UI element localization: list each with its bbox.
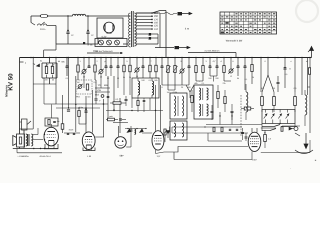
wire drop D6 [149, 58, 151, 66]
capacitor C7 [105, 65, 108, 67]
tube V5 (ECH) [248, 132, 261, 151]
capacitor C20 [244, 65, 247, 67]
capacitor C13 [161, 65, 164, 67]
resistor R15 [251, 65, 253, 72]
capacitor C30 [231, 110, 234, 112]
resistor small c [137, 101, 139, 106]
svg-text:1/4w: 1/4w [79, 106, 84, 109]
wire diag right [268, 75, 274, 92]
pickup arc [295, 150, 313, 154]
V3 electrode b [122, 140, 124, 142]
wire HT [136, 43, 158, 45]
small diode arrow left of cluster A [37, 64, 40, 67]
wire drop C1 [94, 58, 96, 65]
wire h127 [172, 126, 242, 128]
extra density verticals [43, 78, 45, 104]
svg-text:er 4w: er 4w [87, 44, 93, 47]
svg-text:40k: 40k [194, 82, 197, 85]
V4 top lead a [155, 124, 157, 131]
wire vert 56 [55, 58, 57, 105]
wire drop G2 [251, 58, 253, 65]
tube V2 (EBF) [82, 132, 95, 150]
antenna tick [308, 50, 311, 53]
wire drop F5 [223, 58, 225, 66]
resistor R12 [195, 66, 197, 73]
junction t1 [219, 115, 220, 116]
pot arrow R11 [173, 66, 178, 72]
wire h133 [172, 132, 248, 134]
wire drop G1 [244, 58, 246, 66]
trimmer C6 [99, 70, 103, 74]
junction [44, 139, 45, 140]
wire 208 down [207, 133, 209, 141]
capacitor C33 [67, 132, 69, 134]
capacitor C12 [142, 65, 145, 67]
wire drop C4 [110, 58, 112, 66]
wire drop F3 [209, 58, 211, 66]
ground lead [155, 47, 174, 49]
svg-text:70k: 70k [222, 82, 225, 85]
terminal block [149, 33, 152, 36]
svg-text:8k: 8k [261, 87, 263, 90]
V1 cathode [49, 140, 55, 142]
gang dashed link [240, 95, 242, 136]
TR2 secondary [31, 134, 33, 146]
wire loop V4 to V5 [164, 147, 248, 153]
wire band [95, 87, 110, 89]
switch S1 mains [31, 23, 35, 26]
svg-text:4 m: 4 m [185, 28, 189, 31]
junction [44, 148, 45, 149]
resistor R6 [123, 65, 125, 72]
wire h110 long [106, 110, 163, 112]
resistor [61, 124, 64, 130]
svg-text:1M: 1M [77, 81, 80, 84]
wire to transformer [86, 15, 129, 17]
wire h129 left [20, 128, 34, 130]
IFT1 secondary b [207, 104, 209, 116]
wire pair bottom [79, 123, 86, 125]
wire drop G4 [267, 58, 269, 76]
wire drop F7 [237, 58, 239, 66]
resistor R3 [77, 65, 79, 72]
wire lower left [17, 152, 62, 154]
wire bottom right [261, 152, 310, 154]
capacitor C29 [211, 110, 214, 112]
choke L1 [73, 14, 86, 16]
resistor R1 [45, 67, 47, 74]
wire vert 68 [68, 58, 70, 109]
record pickup arrow [305, 133, 307, 147]
trimmer C9 [78, 85, 82, 89]
coil [305, 95, 307, 115]
wire V1-V2 [64, 132, 80, 134]
jack J1 [294, 127, 298, 131]
IFT1 primary b [199, 104, 201, 116]
wire diag left [262, 75, 268, 92]
resistor R30 [308, 68, 310, 75]
potentiometer arrow on R10 [166, 66, 171, 72]
wire main HT bus [20, 57, 312, 59]
diode D1 [264, 114, 268, 119]
resistor R13 [202, 66, 204, 73]
capacitor C8 [110, 65, 113, 67]
wire drop G3 [260, 58, 262, 93]
capacitor small a [107, 95, 110, 97]
V4 left wire [142, 132, 152, 134]
TR2 core b [28, 134, 30, 146]
IF transformer IFT2 [170, 93, 187, 119]
V3 arc [118, 145, 124, 146]
transformer tap 150V [136, 22, 152, 24]
capacitor C16 [209, 65, 212, 67]
antenna symbol right [311, 49, 313, 58]
wire drop D5 [142, 58, 144, 66]
wire mains top [31, 15, 40, 17]
svg-text:0,5M: 0,5M [173, 91, 178, 94]
resistor in box [48, 120, 50, 125]
wire drop B2 [77, 58, 79, 65]
wire to V1 b [33, 139, 43, 141]
wire bottom bus [174, 159, 252, 161]
wire lead riser [159, 14, 161, 48]
transformer tap 170V [136, 18, 152, 20]
svg-text:S8P: S8P [119, 155, 124, 158]
wire drop E3 [174, 58, 176, 66]
wire h124 [206, 124, 262, 126]
V2 cathode [86, 144, 91, 146]
wire vert 114 [113, 76, 115, 110]
wire HT riser to bus [165, 13, 167, 58]
voltage selector switch S2 [152, 11, 160, 14]
capacitor C21 [284, 67, 287, 69]
antenna plug A [178, 12, 183, 15]
resistor R20 [191, 96, 193, 103]
rectifier anode [104, 24, 106, 31]
diode D3 [278, 114, 282, 119]
dial lamp LP3 [115, 40, 120, 45]
heater tap wire 2 [136, 37, 148, 39]
rectifier tube V6 [104, 22, 115, 33]
dial lamp LP2 [107, 40, 112, 45]
V2 top lead b [91, 120, 93, 133]
IFT1 primary a [199, 88, 201, 100]
wire drop G9 [309, 58, 311, 134]
small terminal b [83, 42, 85, 44]
IFT1 core b [202, 104, 204, 116]
wire drop F2 [202, 58, 204, 66]
svg-text:2M: 2M [45, 79, 48, 82]
capacitor C19 [237, 65, 240, 67]
loudspeaker LS1 [13, 136, 17, 146]
wire drop E1 [161, 58, 163, 66]
V1 grids [47, 134, 56, 136]
capacitor [241, 131, 244, 133]
bus junction dots [30, 57, 32, 59]
svg-text:TO: TO [97, 84, 100, 87]
transformer TR1 primary winding [129, 13, 131, 47]
svg-text:220V~: 220V~ [40, 28, 47, 31]
resistor R5 [86, 84, 88, 90]
capacitor [130, 129, 133, 131]
wire antenna coupling [188, 52, 236, 54]
tap wire 220V [136, 12, 160, 14]
trimmer C4 [82, 70, 86, 74]
wire vert V4b upper [160, 85, 162, 124]
V3 electrode a [118, 140, 120, 142]
svg-text:KV 50: KV 50 [8, 73, 15, 91]
power transformer TR1 core [131, 11, 133, 47]
dial lamp panel [95, 39, 127, 47]
wire vert 33 [32, 58, 34, 130]
svg-text:nur bei Allstrom: nur bei Allstrom [205, 50, 220, 53]
trimmer C11 [135, 68, 139, 72]
capacitor [86, 31, 89, 33]
svg-text:·: · [290, 168, 291, 171]
svg-text:50k: 50k [154, 79, 157, 82]
svg-text:∟P4dB/52w: ∟P4dB/52w [17, 155, 29, 158]
wire h127 riser [171, 127, 173, 133]
wire drop C2 [100, 58, 102, 70]
IF transformer IFT1 (double) [194, 85, 213, 119]
IFT2 core [177, 96, 179, 116]
resistor R9 [155, 65, 157, 72]
wire jog right [308, 86, 311, 88]
wire drop G6 [277, 76, 279, 82]
resistor [264, 135, 267, 142]
wire 232 ext [231, 112, 233, 125]
junction t2 [231, 115, 232, 116]
capacitor C23 [95, 98, 98, 100]
svg-text:HUH: HUH [69, 129, 74, 132]
svg-text:1M: 1M [167, 91, 170, 94]
IF transformer IFT3 [170, 121, 187, 140]
switch arm row 1 [262, 126, 274, 128]
wire vert 96 [95, 80, 97, 96]
trimmer C18 [229, 69, 233, 73]
wire h128 right [261, 127, 276, 129]
wire vert 86 upper [85, 96, 87, 120]
wire mains left drop [30, 16, 32, 23]
wire drop F6 [230, 58, 232, 70]
capacitor C10 [117, 65, 120, 67]
svg-text:PIO: PIO [76, 96, 80, 99]
rail tick [20, 61, 24, 63]
wire V5 leg to bus [251, 152, 253, 160]
wire vert 92 upper [91, 90, 93, 120]
wire left chassis rail [19, 58, 21, 149]
junction [85, 107, 86, 108]
wire 220 ext [219, 112, 221, 125]
vertical 103 to V2 side [103, 99, 105, 137]
diode D2 [271, 114, 275, 119]
trimmer C14 [180, 69, 184, 73]
svg-text:1,9°: 1,9° [157, 155, 161, 158]
wire h122 [113, 122, 128, 124]
wire A bottom [42, 77, 57, 79]
svg-text:5k: 5k [237, 77, 239, 80]
pickup arrowhead [304, 144, 308, 149]
wire A top [42, 62, 57, 64]
speaker field coil box [17, 134, 25, 147]
wire band2 [95, 91, 110, 93]
wire pot down [23, 130, 25, 141]
junction det [272, 109, 273, 110]
resistor R21 [217, 92, 219, 99]
junction [242, 132, 243, 133]
watermark ring [296, 0, 318, 22]
resistor R29 [281, 127, 283, 132]
switch arm blade [274, 125, 280, 127]
wire drop G5 [284, 58, 286, 68]
wire h108 [56, 107, 100, 109]
junction 68 [68, 107, 69, 108]
V5 top lead b [256, 128, 258, 132]
junction 76 [75, 104, 76, 105]
capacitor C34 [73, 132, 75, 134]
junction 114 [113, 109, 114, 110]
junction [204, 126, 205, 127]
IFT3 secondary [182, 123, 184, 137]
capacitor C17 [216, 65, 219, 67]
wire to V1 a [33, 134, 38, 136]
band switch box dashed [76, 80, 92, 94]
wire down [164, 135, 166, 142]
junction det2 [280, 123, 281, 124]
small coil [135, 129, 136, 135]
capacitor C22 [277, 81, 280, 83]
dash mark [93, 50, 98, 52]
ground arrow [187, 46, 190, 48]
junction [78, 107, 79, 108]
svg-text:W.O: W.O [95, 94, 100, 97]
coil L3 [152, 81, 154, 95]
wire h141 [208, 140, 242, 142]
step wire to bus [55, 44, 57, 50]
wire h104 [56, 103, 108, 105]
wire drop E2 [167, 58, 169, 66]
svg-text:110: 110 [154, 28, 159, 31]
V4 diode arrow [167, 131, 170, 135]
V5 anode [251, 135, 258, 137]
capacitor C25 [119, 118, 122, 120]
capacitor C26 [85, 110, 88, 112]
svg-text:pwk: pwk [109, 115, 112, 118]
resistor R8 [149, 65, 151, 72]
diode right [289, 127, 292, 130]
resistor R7 [129, 65, 131, 72]
junction V1 grid [44, 134, 45, 135]
arrow marks on R1 R2 [45, 65, 48, 67]
svg-text:nur bei Tastensatz: nur bei Tastensatz [95, 50, 112, 53]
wire [157, 34, 159, 44]
wire drop E5 [188, 58, 190, 66]
capacitor C15 [188, 65, 191, 67]
capacitor C3 [66, 65, 69, 67]
resistor [164, 129, 166, 135]
V2 top lead a [85, 120, 87, 133]
wire vert 108 [107, 76, 109, 120]
V1 base [45, 144, 58, 149]
IFT2 secondary [182, 96, 184, 116]
wire upper aux [87, 52, 119, 54]
resistor on 62 drop [62, 95, 64, 124]
table cell entries [236, 12, 238, 15]
wire h126 [282, 125, 300, 127]
switch blade [41, 22, 45, 26]
svg-text:Wertetafel 4 kW: Wertetafel 4 kW [226, 40, 243, 43]
V3 lead [118, 126, 120, 137]
wire drop G10 [307, 58, 309, 96]
wire [48, 15, 73, 17]
wire drop G8 [301, 58, 303, 96]
wire [123, 43, 128, 45]
wire step down [173, 152, 175, 160]
svg-text:0m: 0m [88, 96, 91, 99]
rectifier cathode [107, 32, 112, 34]
resistor R10 [167, 66, 169, 73]
capacitor [67, 109, 70, 111]
resistor R31 [244, 107, 251, 110]
V2 side wire [95, 136, 104, 138]
wire up [37, 128, 39, 135]
wire det right down [294, 124, 296, 127]
resistor R22 [224, 97, 226, 104]
transformer TR1 secondary winding [134, 13, 136, 46]
capacitor on aux wire [120, 51, 123, 53]
resistor R26 [273, 97, 276, 106]
V2 base [83, 148, 95, 151]
junction 108 [107, 119, 108, 120]
V1 anode lead [50, 124, 52, 127]
svg-text:42m/A OU d: 42m/A OU d [39, 155, 50, 158]
wire vert 120 to V3 [119, 98, 121, 133]
transformer tap 110V [136, 28, 152, 30]
V2 anode [85, 136, 92, 138]
detector rectangle [262, 110, 295, 124]
wire drop D124 [123, 58, 125, 66]
svg-text:Minerva: Minerva [5, 85, 9, 97]
wire h85 osc [162, 84, 189, 86]
capacitor [66, 31, 69, 33]
pot arrow a [164, 130, 167, 135]
resistor R2 [51, 67, 53, 74]
field coil R [19, 137, 21, 144]
wire drop A [49, 58, 51, 64]
small network box left [45, 118, 58, 126]
diode D4 [286, 114, 290, 119]
wire drop B3 [83, 58, 85, 70]
V3 right wire [126, 146, 131, 148]
rectifier enclosure [97, 18, 123, 38]
wire vert 150 [149, 98, 151, 110]
resistor R18 [78, 111, 80, 117]
V4 cathode [155, 143, 161, 145]
junction [33, 148, 34, 149]
TR2 primary [26, 134, 28, 146]
V5 cathode [252, 146, 258, 148]
transformer tap 220V [136, 12, 152, 14]
output tube V1 (AL4) [44, 127, 58, 146]
wire drop C3 [105, 58, 107, 66]
fuse F1 [40, 14, 48, 17]
coil box L2 L3 [132, 78, 159, 98]
coil [246, 92, 248, 112]
wire det left down [261, 124, 263, 132]
junction [40, 148, 41, 149]
resistor R17 [108, 118, 115, 121]
antenna arrowhead [310, 47, 314, 51]
